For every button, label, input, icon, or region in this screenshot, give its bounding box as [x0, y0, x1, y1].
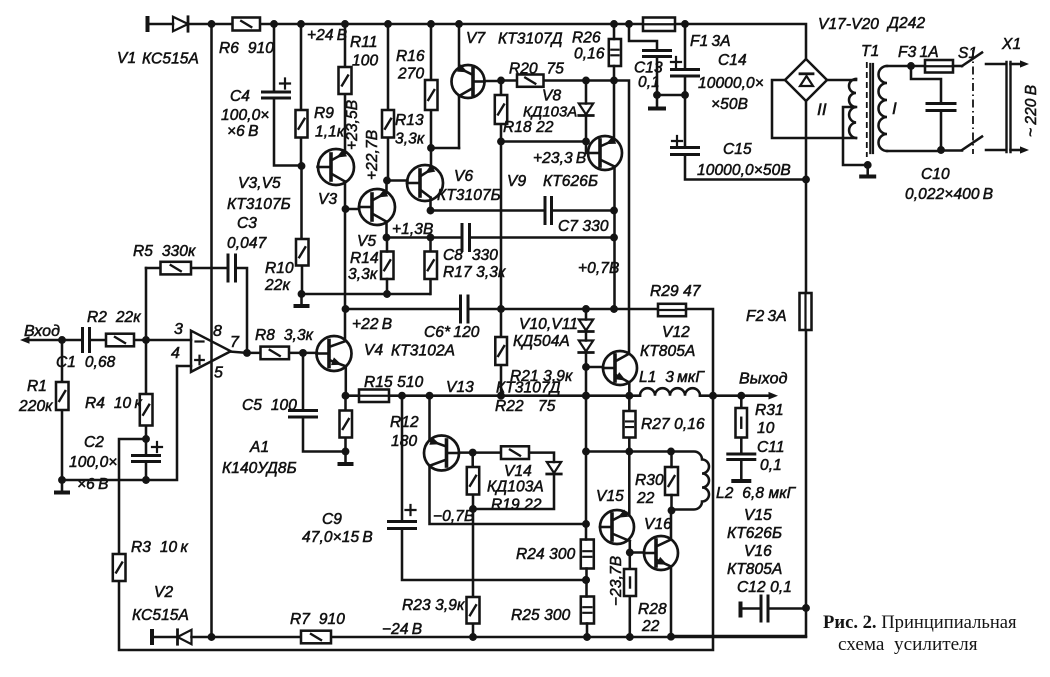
- label V14: [487, 463, 544, 496]
- resistor R29: [658, 304, 686, 316]
- label C12: [737, 579, 792, 596]
- label R31: [755, 402, 784, 437]
- svg-text:10: 10: [757, 420, 775, 437]
- label V1: [117, 50, 199, 68]
- svg-text:V7: V7: [466, 30, 486, 47]
- svg-text:0,1: 0,1: [760, 457, 782, 474]
- label C3: [227, 215, 268, 252]
- resistor R4: [140, 394, 153, 426]
- svg-text:КТ3107Д: КТ3107Д: [496, 380, 561, 397]
- svg-text:+23,5В: +23,5В: [344, 100, 361, 150]
- capacitor C10: [927, 104, 955, 111]
- fuse F2: [800, 293, 812, 330]
- wire R5 feedback: [146, 268, 247, 353]
- resistor R11: [339, 67, 352, 94]
- resistor R7: [301, 631, 331, 644]
- label R17: [443, 264, 506, 281]
- svg-text:R18 22: R18 22: [503, 119, 554, 136]
- svg-text:С14: С14: [718, 52, 747, 69]
- svg-text:Выход: Выход: [739, 371, 788, 388]
- wire V13 collector column: [430, 466, 587, 525]
- label C10: [905, 166, 993, 203]
- svg-text:1,1к: 1,1к: [315, 124, 345, 141]
- svg-text:R3 10 к: R3 10 к: [131, 539, 188, 556]
- transistor V13: [424, 436, 459, 471]
- label R21: [510, 316, 578, 385]
- svg-text:×50В: ×50В: [711, 96, 748, 113]
- terminal V1 anode bar: [146, 16, 150, 32]
- svg-text:КС515А: КС515А: [142, 51, 199, 68]
- wire bridge left to secondary bottom: [772, 80, 856, 138]
- svg-text:R29 47: R29 47: [650, 283, 702, 300]
- wire V16 emitter: [670, 567, 673, 637]
- wire R3 branch: [119, 439, 146, 554]
- label A1: [171, 321, 297, 477]
- transistor V12: [603, 351, 637, 385]
- wire V5 emitter to V6 base: [364, 130, 408, 193]
- wire bottom rail: [119, 396, 713, 650]
- transistor V9: [588, 136, 622, 170]
- ground at R12: [338, 452, 354, 467]
- svg-text:КТ805А: КТ805А: [640, 343, 695, 360]
- ground at T1: [859, 165, 876, 179]
- svg-text:КТ805А: КТ805А: [727, 561, 782, 578]
- label R3: [131, 539, 188, 556]
- resistor R6: [233, 18, 261, 31]
- svg-text:КТ3107Д: КТ3107Д: [498, 31, 563, 48]
- resistor R9: [296, 110, 308, 138]
- resistor R24: [581, 540, 594, 569]
- capacitor C3: [228, 255, 236, 281]
- label R15: [364, 374, 424, 391]
- wire V3 collector column: [342, 100, 361, 341]
- wire driver row 451: [586, 448, 675, 456]
- svg-text:+22 В: +22 В: [352, 316, 392, 333]
- wire X1 top lead: [986, 63, 1006, 66]
- wire V16 collector: [670, 511, 673, 540]
- wire input line: [27, 336, 191, 344]
- capacitor C4: [263, 79, 291, 99]
- svg-text:V5: V5: [357, 233, 376, 250]
- svg-text:V8: V8: [542, 88, 561, 105]
- wire V5 collector row +1.3V: [383, 221, 618, 241]
- svg-text:V9: V9: [507, 173, 526, 190]
- label R23: [402, 597, 465, 614]
- svg-text:L2 6,8 мкГ: L2 6,8 мкГ: [716, 485, 797, 502]
- label R29: [650, 283, 702, 300]
- svg-text:R30: R30: [635, 472, 664, 489]
- label V12: [640, 324, 695, 360]
- label R11: [350, 34, 378, 70]
- wire R23 column: [472, 509, 475, 637]
- resistor R31: [736, 408, 748, 438]
- wire R10 column: [300, 166, 303, 294]
- resistor R20: [517, 75, 544, 87]
- label F3: [898, 44, 939, 61]
- svg-text:X1: X1: [1001, 36, 1021, 53]
- connector X1 bars: [1007, 62, 1011, 152]
- svg-text:R10: R10: [265, 260, 294, 277]
- svg-text:V14: V14: [504, 463, 532, 480]
- wire V7 emitter: [458, 24, 461, 68]
- wire C14 column: [685, 24, 810, 183]
- svg-text:~ 220 В: ~ 220 В: [1023, 85, 1040, 137]
- svg-text:100: 100: [352, 53, 378, 70]
- input arrow: [20, 336, 30, 344]
- label C8: [443, 247, 498, 264]
- capacitor C6: [461, 296, 469, 322]
- capacitor C7: [545, 198, 552, 224]
- svg-text:С1 0,68: С1 0,68: [56, 354, 116, 371]
- svg-text:+0,7В: +0,7В: [578, 260, 619, 277]
- label R27: [641, 416, 705, 433]
- wire V12 emitter: [628, 383, 631, 396]
- caption: [823, 612, 1017, 655]
- wire R11 column: [344, 24, 347, 153]
- label C13: [634, 60, 663, 92]
- label V15t: [596, 488, 624, 505]
- connector X1 top arrow: [1011, 60, 1030, 67]
- label R20: [509, 61, 564, 78]
- resistor R22: [501, 446, 529, 459]
- wire V8 column: [582, 81, 590, 154]
- label R30: [635, 472, 664, 507]
- wire bridge bottom column: [805, 101, 808, 180]
- wire R28 column: [629, 553, 632, 637]
- svg-text:С10: С10: [921, 166, 950, 183]
- wire -V column right: [671, 180, 810, 637]
- svg-text:S1: S1: [958, 45, 977, 62]
- label input: [24, 323, 60, 340]
- resistor R28: [624, 569, 636, 596]
- svg-text:47,0×15 В: 47,0×15 В: [302, 529, 373, 546]
- wire R1 column: [61, 340, 64, 480]
- svg-text:КД103А: КД103А: [523, 105, 577, 121]
- svg-text:100,0×: 100,0×: [69, 454, 117, 471]
- diode V10: [579, 320, 593, 332]
- svg-text:R24 300: R24 300: [516, 546, 576, 563]
- svg-text:С9: С9: [322, 511, 342, 528]
- svg-text:+23,3 В: +23,3 В: [533, 150, 586, 167]
- svg-text:220к: 220к: [18, 398, 53, 415]
- resistor R15: [359, 390, 389, 403]
- ground at C13: [648, 95, 666, 111]
- resistor R19: [467, 467, 479, 495]
- wire pin7 output: [231, 349, 317, 357]
- wire R18 column: [497, 81, 505, 146]
- svg-text:×6 В: ×6 В: [227, 123, 259, 140]
- svg-text:R16: R16: [396, 48, 425, 65]
- svg-text:V17-V20: V17-V20: [818, 16, 879, 33]
- diode V8: [579, 104, 593, 116]
- label F2: [746, 308, 787, 325]
- svg-text:V15: V15: [744, 507, 772, 524]
- transformer T1 primary I: [879, 66, 888, 151]
- wire V3 base: [316, 166, 319, 169]
- transformer T1 core: [867, 62, 873, 157]
- wire R21 column: [500, 142, 503, 396]
- svg-text:схема усилителя: схема усилителя: [838, 634, 978, 655]
- fuse F3: [925, 60, 953, 73]
- wire R14 column: [386, 238, 389, 295]
- svg-text:Т1: Т1: [861, 43, 879, 60]
- svg-text:С5 100: С5 100: [242, 397, 297, 414]
- wire V15 collector: [628, 452, 631, 516]
- diode V11: [579, 341, 593, 353]
- wire C5 column: [303, 353, 349, 456]
- label R28: [608, 556, 667, 635]
- wire X1 bottom lead: [986, 149, 1006, 152]
- wire V15 emitter junction: [626, 541, 644, 556]
- svg-text:R25 300: R25 300: [511, 607, 571, 624]
- wire output row: [342, 392, 770, 400]
- resistor R13: [382, 110, 394, 138]
- svg-text:С15: С15: [723, 141, 752, 158]
- label R4: [85, 395, 142, 412]
- label V17-V20: [818, 15, 925, 33]
- svg-text:КД103А: КД103А: [487, 479, 544, 496]
- svg-text:22к: 22к: [264, 277, 290, 294]
- resistor R18: [495, 95, 507, 124]
- resistor R3: [113, 554, 126, 581]
- label C9: [302, 511, 373, 546]
- label R19: [491, 497, 542, 514]
- wire R19 column: [469, 453, 477, 513]
- label C15: [697, 141, 791, 179]
- bridge rectifier V17-V20: [785, 59, 827, 101]
- svg-text:R20 75: R20 75: [509, 61, 564, 78]
- svg-text:10000,0×50В: 10000,0×50В: [697, 162, 791, 179]
- svg-text:R11: R11: [350, 34, 378, 51]
- wire C12 row: [743, 607, 807, 610]
- svg-text:×6 В: ×6 В: [77, 476, 109, 493]
- svg-text:−23,7В: −23,7В: [608, 556, 625, 606]
- terminal C11 bar: [731, 479, 751, 483]
- svg-text:Д242: Д242: [886, 15, 925, 32]
- svg-text:R14: R14: [350, 250, 379, 267]
- wire V13 emitter column: [428, 396, 431, 441]
- resistor R14: [381, 252, 394, 280]
- svg-text:100,0×: 100,0×: [221, 107, 269, 124]
- label II: [817, 100, 827, 119]
- resistor R17: [425, 252, 438, 280]
- switch S1 bottom blade: [962, 137, 982, 151]
- capacitor C1: [83, 329, 90, 352]
- wire primary bottom row: [887, 149, 962, 152]
- wire R26 column: [613, 24, 616, 140]
- resistor R1: [56, 382, 69, 410]
- svg-text:3: 3: [174, 321, 183, 338]
- resistor R30: [665, 467, 678, 495]
- label R8: [255, 327, 314, 344]
- resistor R27: [624, 411, 636, 438]
- svg-text:R22: R22: [495, 398, 524, 415]
- wire pin4: [177, 365, 191, 368]
- switch link dash-dot: [972, 50, 974, 154]
- svg-text:R4 10 к: R4 10 к: [85, 395, 142, 412]
- svg-text:R31: R31: [755, 402, 784, 419]
- resistor R25: [581, 597, 594, 624]
- svg-text:R19 22: R19 22: [491, 497, 542, 514]
- svg-text:0,022×400 В: 0,022×400 В: [905, 186, 993, 203]
- svg-text:С2: С2: [84, 434, 104, 451]
- svg-text:F3 1А: F3 1А: [898, 44, 939, 61]
- label C4: [221, 88, 269, 140]
- label X1: [1001, 36, 1040, 137]
- wire C4 branch: [274, 24, 302, 166]
- resistor R12: [340, 411, 353, 438]
- svg-text:КС515А: КС515А: [132, 607, 189, 624]
- svg-text:II: II: [817, 100, 827, 119]
- wire R20 row: [485, 77, 630, 354]
- label R2: [87, 309, 141, 326]
- svg-text:−24 В: −24 В: [382, 621, 422, 638]
- wire R9 column: [298, 24, 306, 170]
- label C2: [69, 434, 117, 493]
- svg-text:R12: R12: [390, 414, 419, 431]
- svg-text:R17 3,3к: R17 3,3к: [443, 264, 506, 281]
- svg-text:С7 330: С7 330: [558, 218, 609, 235]
- wire V7 collector to R16 row: [431, 97, 459, 148]
- label V13: [446, 379, 561, 397]
- transformer T1 secondary II: [843, 79, 872, 169]
- capacitor C8: [462, 225, 470, 251]
- svg-text:10000,0×: 10000,0×: [698, 75, 764, 92]
- fuse F1: [643, 18, 675, 32]
- label C1: [56, 354, 116, 371]
- wire C13 branch: [629, 24, 661, 99]
- svg-text:R15 510: R15 510: [364, 374, 424, 391]
- label V3: [227, 175, 337, 213]
- svg-text:С11: С11: [757, 439, 785, 456]
- svg-text:КТ3107Б: КТ3107Б: [437, 187, 501, 204]
- label R24: [516, 546, 576, 563]
- capacitor C5: [290, 411, 317, 418]
- op-amp A1: [191, 331, 231, 372]
- transistor V15: [600, 510, 634, 545]
- resistor R26: [609, 39, 621, 66]
- output arrow: [769, 392, 779, 400]
- wire R16 column: [427, 24, 435, 169]
- wire R4 column: [142, 340, 150, 443]
- wire V6 collector / C7 row: [427, 198, 618, 215]
- svg-text:КТ626Б: КТ626Б: [727, 525, 782, 542]
- svg-text:−0,7В: −0,7В: [433, 508, 474, 525]
- wire V1-V2 column: [210, 24, 213, 637]
- ground at R1: [54, 480, 70, 495]
- wire R31 column: [740, 396, 743, 454]
- wire common row y294: [298, 290, 430, 298]
- switch S1 top blade: [962, 53, 982, 67]
- transistor V16: [644, 536, 678, 570]
- svg-text:V2: V2: [154, 584, 173, 601]
- capacitor C12: [761, 596, 768, 621]
- svg-text:V13: V13: [446, 379, 474, 396]
- svg-text:С6* 120: С6* 120: [424, 324, 480, 341]
- svg-text:0,047: 0,047: [227, 235, 268, 252]
- svg-text:R8 3,3к: R8 3,3к: [255, 327, 314, 344]
- label R26: [572, 30, 605, 63]
- label C11: [716, 439, 797, 578]
- transistor V3: [318, 149, 354, 185]
- resistor R5: [161, 262, 192, 275]
- svg-text:V15: V15: [596, 488, 624, 505]
- wire V14 bottom loop: [473, 475, 554, 510]
- connector X1 bottom arrow: [1011, 146, 1030, 153]
- svg-text:С12 0,1: С12 0,1: [737, 579, 792, 596]
- svg-text:R28: R28: [638, 601, 667, 618]
- svg-text:4: 4: [171, 345, 180, 362]
- svg-text:А1: А1: [249, 439, 269, 456]
- svg-text:V6: V6: [454, 168, 473, 185]
- label R1: [18, 378, 53, 415]
- label R18: [503, 119, 554, 136]
- capacitor C9: [389, 505, 416, 529]
- wire -24V rail: [153, 633, 806, 641]
- label R5: [133, 243, 196, 260]
- svg-text:+1,3В: +1,3В: [392, 221, 433, 238]
- svg-text:R2 22к: R2 22к: [87, 309, 141, 326]
- label T1: [861, 43, 897, 118]
- svg-text:КТ3102А: КТ3102А: [391, 343, 455, 360]
- label C6: [424, 324, 480, 341]
- svg-text:R26: R26: [572, 30, 601, 47]
- svg-text:22: 22: [636, 490, 655, 507]
- svg-text:Рис. 2. Принципиальная: Рис. 2. Принципиальная: [823, 612, 1017, 633]
- diode V1: [173, 17, 188, 31]
- wire R12 column: [344, 396, 347, 452]
- label V7: [466, 30, 563, 48]
- label R14: [348, 250, 379, 283]
- svg-text:R13: R13: [395, 112, 424, 129]
- label F1: [690, 33, 731, 50]
- svg-text:7: 7: [230, 334, 240, 351]
- svg-text:V12: V12: [662, 324, 690, 341]
- svg-text:V10,V11: V10,V11: [519, 316, 578, 333]
- svg-text:R23 3,9к: R23 3,9к: [402, 597, 465, 614]
- svg-text:V3,V5: V3,V5: [238, 175, 281, 192]
- svg-text:180: 180: [391, 433, 417, 450]
- wire C13-C14 link: [657, 91, 689, 99]
- svg-text:3,3к: 3,3к: [348, 266, 378, 283]
- svg-text:3,3к: 3,3к: [395, 131, 425, 148]
- wire bridge right to secondary top: [827, 79, 856, 80]
- svg-text:I: I: [892, 99, 897, 118]
- svg-text:+22,7В: +22,7В: [364, 130, 381, 180]
- label output: [739, 371, 788, 388]
- svg-text:R27 0,16: R27 0,16: [641, 416, 705, 433]
- wire R30 stubs: [668, 452, 676, 515]
- transistor V6: [407, 165, 443, 201]
- resistor R8: [261, 347, 290, 360]
- wire C2 column: [145, 439, 148, 480]
- capacitor C11: [728, 454, 755, 479]
- label V6: [437, 168, 501, 204]
- diode V2: [178, 630, 192, 644]
- svg-text:F2 3А: F2 3А: [746, 308, 787, 325]
- label L1: [639, 369, 705, 386]
- wire +22V row: [346, 305, 714, 396]
- label V9: [507, 150, 598, 190]
- label V16t: [644, 516, 672, 533]
- wire R17 column: [429, 238, 432, 295]
- svg-text:R1: R1: [27, 378, 47, 395]
- svg-text:F1 3А: F1 3А: [690, 33, 731, 50]
- svg-text:V16: V16: [744, 543, 772, 560]
- wire F3 to switch: [953, 65, 962, 68]
- svg-text:R6 910: R6 910: [219, 40, 274, 57]
- wire R27 column: [628, 396, 631, 452]
